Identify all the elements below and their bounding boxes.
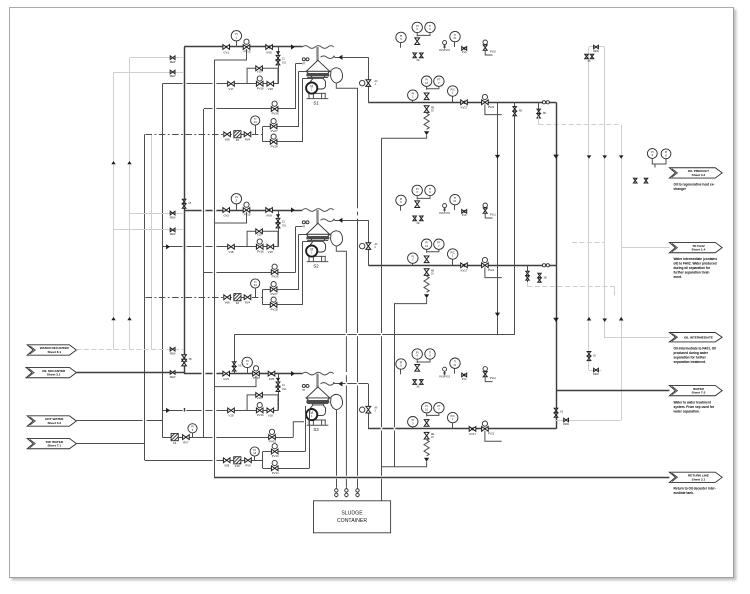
wire seal manifold unit1: [262, 126, 264, 141]
wire light link mid: [589, 370, 601, 372]
svg-text:GV3: GV3: [223, 377, 229, 381]
valve V17 unit1: [228, 81, 235, 86]
wire F4 hot water line: [162, 437, 293, 439]
flow arrow left hose outlet unit1: [339, 55, 343, 60]
svg-text:RV2/PV22: RV2/PV22: [439, 213, 450, 215]
strainer symbol unit3: [302, 384, 305, 387]
svg-text:Sheet 1:4: Sheet 1:4: [692, 248, 706, 252]
svg-text:XE: XE: [416, 386, 420, 389]
svg-text:1: 1: [375, 83, 377, 86]
valve AV2 with actuator: [360, 243, 365, 248]
wire light column x=589: [588, 47, 590, 370]
wire tap-water line: [76, 443, 144, 445]
check valve KV top unit2: [462, 210, 467, 214]
wire PV20 tail unit2: [485, 267, 502, 277]
separator inlet riser unit3: [316, 374, 318, 388]
crossing gap at (214.5,246.8): [213, 246, 217, 248]
svg-text:F6: F6: [236, 301, 240, 305]
valve REW on light line unit2 upper: [170, 211, 175, 215]
svg-text:PV14: PV14: [272, 471, 279, 475]
valve pair light stub unit1: [538, 102, 540, 117]
svg-text:F4: F4: [173, 441, 177, 445]
svg-text:REW: REW: [593, 373, 599, 376]
svg-text:XB: XB: [519, 111, 523, 113]
instrument pair top unit2: [412, 185, 422, 195]
svg-text:03: 03: [431, 110, 434, 112]
svg-text:SLUDGE: SLUDGE: [341, 511, 363, 517]
svg-text:Sheet 3.1: Sheet 3.1: [47, 373, 61, 377]
svg-text:V17: V17: [229, 87, 234, 91]
svg-text:XS: XS: [560, 412, 564, 414]
valve pair CV unit2: [276, 218, 280, 223]
valve RV4 unit1: [244, 132, 251, 137]
crossing gap at (184.5,83.8): [183, 83, 187, 85]
control valve PV28 unit2: [271, 297, 276, 302]
valve pair CV unit1: [276, 55, 280, 60]
valve GV1: [223, 45, 230, 50]
instrument PI top unit3: [400, 369, 402, 374]
wire light drop unit2: [614, 287, 616, 296]
wire main outlet line unit2: [368, 265, 556, 267]
svg-text:V19: V19: [229, 414, 234, 418]
instrument PI tap water: [254, 456, 256, 460]
svg-text:X5: X5: [588, 60, 592, 63]
flag TO FA02: [669, 242, 722, 252]
instrument PI unit1 feed: [236, 41, 238, 47]
valve pair on riser below water-decanter junction: [182, 355, 187, 362]
wire relief drain unit2: [395, 298, 427, 467]
wire S2 solids drain: [336, 246, 346, 488]
sludge inlet valve 3: [335, 488, 337, 498]
flow arrow up on light riser B: [127, 161, 131, 164]
filter F10: [234, 457, 241, 464]
separator S2 body: [306, 223, 329, 234]
wire F4 riser to S3: [293, 422, 304, 437]
svg-text:S2: S2: [313, 264, 319, 269]
valve REW mid link: [594, 368, 599, 372]
valve below pair top unit3: [415, 365, 420, 372]
isolation ball pair unit2: [542, 264, 545, 267]
wire water-decanter dashed line: [76, 349, 184, 351]
flexible hose outlet unit1: [321, 56, 335, 59]
svg-text:KV17: KV17: [461, 269, 468, 273]
valve REW on water-decanter line: [170, 347, 175, 351]
check valve KV top unit3: [462, 373, 467, 377]
valve pair X5 mid: [587, 352, 591, 357]
flow arrow feed unit2: [291, 207, 295, 212]
svg-text:OIL INTERMEDIATE: OIL INTERMEDIATE: [684, 335, 713, 339]
svg-text:V58: V58: [224, 464, 229, 468]
wire PV28 riser unit1: [302, 78, 304, 142]
svg-text:3: 3: [375, 410, 377, 413]
flow arrow up on light riser A lower: [111, 317, 115, 320]
instrument TI seal unit1: [255, 126, 257, 135]
crossing gap at (214.5,373.6): [213, 372, 217, 374]
strainer symbol unit2: [302, 221, 305, 224]
svg-text:Return to Oil decanter inter-: Return to Oil decanter inter-: [674, 486, 716, 490]
valve RV7: [183, 435, 190, 440]
svg-text:Sheet 7:3: Sheet 7:3: [692, 391, 706, 395]
svg-text:RV1/PV21: RV1/PV21: [439, 50, 450, 52]
valve V19 unit3: [256, 393, 263, 398]
wire bypass loop unit2: [247, 231, 278, 247]
svg-text:XB: XB: [189, 359, 193, 361]
valve REW low link: [564, 418, 569, 422]
sludge inlet valve 2: [345, 488, 347, 498]
valve pair XE unit2: [413, 216, 417, 221]
svg-text:XB: XB: [543, 113, 547, 115]
control valve PV10 top unit1: [483, 40, 487, 44]
svg-text:REW: REW: [170, 376, 176, 379]
wire relief drain unit3: [381, 462, 426, 467]
instrument TIC top unit1: [454, 42, 456, 47]
flag HOT WATER: [27, 416, 76, 426]
svg-text:PV16: PV16: [257, 86, 264, 90]
wire F10 tap water line: [145, 460, 263, 462]
solenoid RV2/PV22 unit2: [443, 204, 447, 208]
valve pair CV unit3: [276, 382, 280, 387]
svg-text:KV6: KV6: [462, 51, 467, 54]
wire hose outlet to drop unit2: [335, 220, 369, 222]
svg-text:Water to water treatment: Water to water treatment: [674, 400, 712, 404]
valve V18 unit3: [267, 408, 274, 413]
wire PV26 line unit2: [204, 272, 296, 274]
crossing gap at (214.5,272): [213, 271, 217, 273]
crossing gap unit2 drain: [394, 427, 396, 430]
svg-text:REW: REW: [170, 216, 176, 219]
light line to riser unit1 lower: [114, 72, 185, 74]
svg-text:XB: XB: [544, 277, 548, 279]
wire outlet drop x=368.3 unit3: [368, 384, 370, 429]
instrument pair main unit3: [421, 403, 431, 413]
svg-text:V19: V19: [257, 69, 262, 73]
svg-text:system. From sep used for: system. From sep used for: [674, 405, 715, 409]
wire water-decanter light riser B: [129, 58, 131, 350]
wire recirc drop to unit3 feed: [234, 335, 236, 374]
valve GV2: [223, 208, 230, 213]
crossing gap at (203.5,246.8): [202, 246, 206, 248]
valve REW on light line unit1 upper: [170, 56, 175, 60]
flexible hose feed unit3: [302, 372, 333, 375]
instrument PIC main unit3: [452, 423, 454, 429]
flag WATER DECANTER: [27, 345, 76, 355]
svg-text:REW: REW: [593, 50, 599, 53]
svg-text:PV10: PV10: [490, 50, 497, 53]
wire return line: [214, 477, 669, 479]
svg-text:further separation treat-: further separation treat-: [674, 270, 710, 274]
wire oil-decanter line: [76, 372, 184, 374]
flow arrow light 604 low: [602, 319, 607, 322]
flow arrow down CV stub unit3: [276, 378, 280, 381]
separator S2 motor: [306, 245, 317, 256]
svg-text:C1: C1: [282, 385, 286, 387]
separator S3 solids catcher: [331, 394, 343, 409]
flow arrow header 2: [553, 318, 559, 322]
svg-text:PV9: PV9: [245, 464, 251, 468]
crossing gaps drain S1: [357, 208, 359, 479]
wire bypass line unit1: [162, 83, 278, 85]
wire PV15 spill-back unit3: [214, 376, 256, 387]
control valve PV32: [269, 429, 274, 434]
check valve KV top unit1: [462, 47, 467, 51]
check valve KV8 unit3: [268, 371, 275, 376]
separator S1 body: [306, 60, 329, 71]
wire hot-water line: [76, 420, 162, 422]
svg-text:V18: V18: [268, 414, 273, 418]
svg-text:separation for further: separation for further: [674, 356, 707, 360]
wire feed line unit2: [184, 210, 302, 212]
wire to-fa02 line: [621, 247, 669, 249]
instrument pair main unit2: [421, 239, 431, 249]
instrument pair top unit1: [412, 22, 422, 32]
wire feed line unit1: [184, 46, 302, 48]
wire PV14 riser: [309, 410, 311, 469]
wire sludge header x=381.3: [381, 138, 383, 501]
svg-text:RE: RE: [431, 434, 435, 436]
filter F6 unit1: [234, 131, 241, 138]
wire water-decanter light riser A: [113, 72, 115, 349]
wire bypass line unit2: [162, 246, 278, 248]
wire tap-water riser x=144.8: [144, 134, 146, 460]
svg-text:V68: V68: [225, 301, 230, 305]
control valve PV20 unit2: [482, 257, 487, 262]
flexible hose outlet unit2: [321, 219, 335, 222]
svg-text:V18: V18: [268, 250, 273, 254]
filter F6 unit2: [234, 294, 241, 301]
flag WATER: [669, 385, 722, 395]
instrument PI main unit1: [412, 100, 414, 102]
crossing gap at (144.5,420.7): [143, 420, 147, 422]
separator S1 motor: [306, 82, 317, 93]
valve pair X5 top: [585, 54, 589, 59]
svg-text:PV15: PV15: [244, 213, 251, 217]
crossing gap at (214.5,409.8): [213, 409, 217, 411]
wire return header riser x=214.3: [214, 60, 216, 477]
flow arrow relief unit1: [424, 131, 429, 135]
flexible hose outlet unit3: [321, 383, 335, 386]
flow arrow relief unit2: [424, 294, 429, 298]
svg-text:KV17: KV17: [469, 432, 476, 436]
strainer symbol unit1: [302, 58, 305, 61]
svg-text:PV28: PV28: [271, 145, 278, 149]
svg-text:Sheet 7.1: Sheet 7.1: [47, 444, 61, 448]
wire S1 solids drain: [336, 83, 357, 488]
flow arrow relief unit3: [424, 458, 429, 462]
control valve PV28 unit1: [271, 134, 276, 139]
valve GV3: [223, 371, 230, 376]
instrument PI main unit3: [412, 427, 414, 429]
svg-text:GV1: GV1: [223, 50, 229, 54]
valve V58: [223, 458, 230, 463]
wire light link unit2: [527, 282, 529, 287]
svg-text:RV7: RV7: [183, 440, 189, 444]
relief spring unit1: [424, 113, 429, 129]
check valve KV17 unit3: [469, 427, 476, 432]
wire PV15 spill-back unit1: [214, 49, 246, 60]
svg-text:RV3/PV23: RV3/PV23: [439, 377, 450, 379]
flow arrow header 1: [553, 155, 559, 159]
valve pair on riser unit2: [182, 199, 186, 204]
wire PV20 tail unit1: [485, 104, 502, 114]
wire PV15 spill-back unit2: [214, 212, 246, 223]
wire light column x=621.2: [621, 125, 623, 420]
svg-text:PV13: PV13: [272, 454, 279, 458]
svg-text:KV8: KV8: [266, 213, 272, 217]
valve pair XB unit2: [538, 273, 541, 277]
crossing gaps drain S3: [335, 476, 337, 479]
flow arrow bypass unit2: [166, 244, 170, 249]
svg-text:REW: REW: [170, 75, 176, 78]
instrument PI unit3 feed: [247, 368, 249, 374]
flow arrow feed unit3: [291, 371, 295, 376]
valve below pair unit2: [424, 256, 429, 263]
instrument pair top unit3: [412, 349, 422, 359]
flexible hose feed unit2: [302, 209, 333, 212]
wire PV13 riser: [305, 406, 307, 452]
relief spring unit3: [424, 440, 429, 456]
svg-text:PV22: PV22: [488, 432, 495, 436]
wire right header x=556: [556, 102, 558, 429]
instrument PI unit2 feed: [236, 204, 238, 210]
wire seal manifold unit2: [262, 289, 264, 305]
wire light link unit1: [538, 116, 540, 125]
wire oil-intermediate line: [605, 337, 670, 339]
valve REW top link: [594, 45, 599, 49]
svg-text:X5: X5: [188, 203, 192, 205]
wire bypass loop unit1: [247, 68, 278, 84]
check valve KV17 unit2: [461, 263, 468, 268]
svg-text:KV17: KV17: [461, 106, 468, 110]
wire main outlet line unit3: [368, 428, 556, 430]
valve AV1 with actuator: [360, 80, 365, 85]
instrument PI hot water: [192, 433, 194, 437]
control valve PV16 unit1: [257, 76, 262, 81]
instrument PI top unit2: [400, 206, 402, 211]
control valve PV20 unit3: [482, 421, 487, 426]
flag OIL INTERMEDIATE: [669, 333, 722, 342]
control valve PV13: [272, 444, 277, 449]
svg-text:Oil intermediate to FA01. Oil: Oil intermediate to FA01. Oil: [674, 347, 717, 351]
flow arrow bypass unit3: [166, 408, 170, 413]
crossing gap at (184.5,409.8): [183, 409, 187, 411]
crossing gaps header: [381, 333, 383, 479]
wire relief drain unit1: [381, 135, 426, 138]
svg-text:PV27: PV27: [271, 129, 278, 133]
wire CV stub unit2: [278, 210, 280, 247]
dashed light line unit1: [539, 124, 621, 126]
wire seal-water header x=203.9: [203, 109, 205, 437]
control valve PV12 top unit3: [483, 367, 487, 371]
separator S3 body: [306, 387, 329, 398]
svg-text:V18: V18: [229, 250, 234, 254]
svg-text:V18: V18: [268, 87, 273, 91]
svg-text:2: 2: [375, 246, 377, 249]
svg-text:V19: V19: [257, 232, 262, 236]
svg-text:Sheet 3.2: Sheet 3.2: [47, 421, 61, 425]
control valve PV16 unit3: [257, 403, 262, 408]
check valve KV17 unit1: [461, 100, 468, 105]
svg-text:CONTAINER: CONTAINER: [337, 518, 367, 524]
crossing gap at (214.5,109): [213, 108, 217, 110]
light line to riser unit2 upper: [130, 213, 185, 215]
control valve PV20 unit1: [482, 94, 487, 99]
wire recirc vertical x=514.7: [514, 102, 516, 334]
crossing gap at (203.5,210): [202, 209, 206, 211]
wire water line: [556, 390, 669, 392]
svg-text:KV8: KV8: [266, 50, 272, 54]
flow arrow light 621 low: [619, 317, 624, 320]
svg-text:F6: F6: [236, 138, 240, 142]
control valve PV26 unit1: [272, 101, 277, 106]
control valve PV15 unit2: [244, 202, 249, 207]
svg-text:PV28: PV28: [271, 308, 278, 312]
wire light link top: [589, 46, 605, 48]
svg-text:XE: XE: [416, 222, 420, 225]
crossing gap at (214.5,437.1): [213, 436, 217, 438]
flow arrow up on light riser B lower: [127, 317, 131, 320]
wire light riser C: [151, 134, 153, 349]
wire hose outlet to drop unit3: [335, 383, 369, 385]
control valve PV27 unit1: [271, 119, 276, 124]
valve below pair unit1: [424, 93, 429, 100]
valve REW on light line unit1 lower: [170, 70, 175, 74]
control valve PV14: [272, 460, 277, 465]
svg-text:Water intermediate (contains: Water intermediate (contains: [674, 257, 718, 261]
control valve PV16 unit2: [257, 239, 262, 244]
wire recirc horizontal: [234, 334, 515, 336]
svg-text:mediate tank.: mediate tank.: [674, 491, 694, 495]
flow arrow recirc A2: [495, 313, 500, 317]
valve pair XE unit1: [413, 53, 417, 58]
wire PV26 line unit1: [204, 108, 296, 110]
light dashed stub mid-right: [572, 242, 605, 244]
svg-text:[M]: [M]: [443, 46, 447, 48]
svg-text:[M]: [M]: [443, 209, 447, 211]
wire light link low: [556, 420, 621, 422]
wire PV27 riser unit1: [298, 71, 300, 126]
crossing gap at (214.5,460.3): [213, 459, 217, 461]
wire PV20 tail unit3: [485, 431, 502, 441]
svg-text:F10: F10: [235, 464, 240, 468]
flow arrow down CV stub unit2: [276, 214, 280, 217]
valve V68 unit2: [224, 295, 231, 300]
flag OIL PRODUCT: [669, 168, 722, 178]
valve pair light stub unit2: [527, 265, 529, 282]
flag OIL DECANTER: [26, 367, 76, 377]
svg-text:PV12: PV12: [490, 377, 497, 380]
valve pair right header: [554, 408, 558, 413]
valve below pair top unit2: [415, 201, 420, 208]
instrument PI main unit2: [412, 263, 414, 265]
svg-text:separation treatment.: separation treatment.: [674, 360, 707, 364]
svg-text:PV20: PV20: [488, 105, 495, 109]
svg-text:PV15: PV15: [253, 376, 260, 380]
svg-text:produced during water: produced during water: [674, 351, 709, 355]
svg-text:XS: XS: [238, 366, 242, 368]
wire CV stub unit3: [278, 374, 280, 411]
sludge inlet valve 1: [357, 488, 359, 498]
svg-text:PV27: PV27: [271, 292, 278, 296]
svg-text:PV11: PV11: [490, 213, 496, 216]
crossing gap at (214.5,210): [213, 209, 217, 211]
flow arrow light 621: [619, 155, 624, 158]
flow arrow recirc A1: [495, 155, 500, 159]
control valve PV27 unit2: [271, 282, 276, 287]
svg-text:REW: REW: [170, 61, 176, 64]
valve pair below oil product: [633, 178, 637, 183]
wire bypass line unit3: [162, 410, 278, 412]
svg-text:03: 03: [431, 273, 434, 275]
